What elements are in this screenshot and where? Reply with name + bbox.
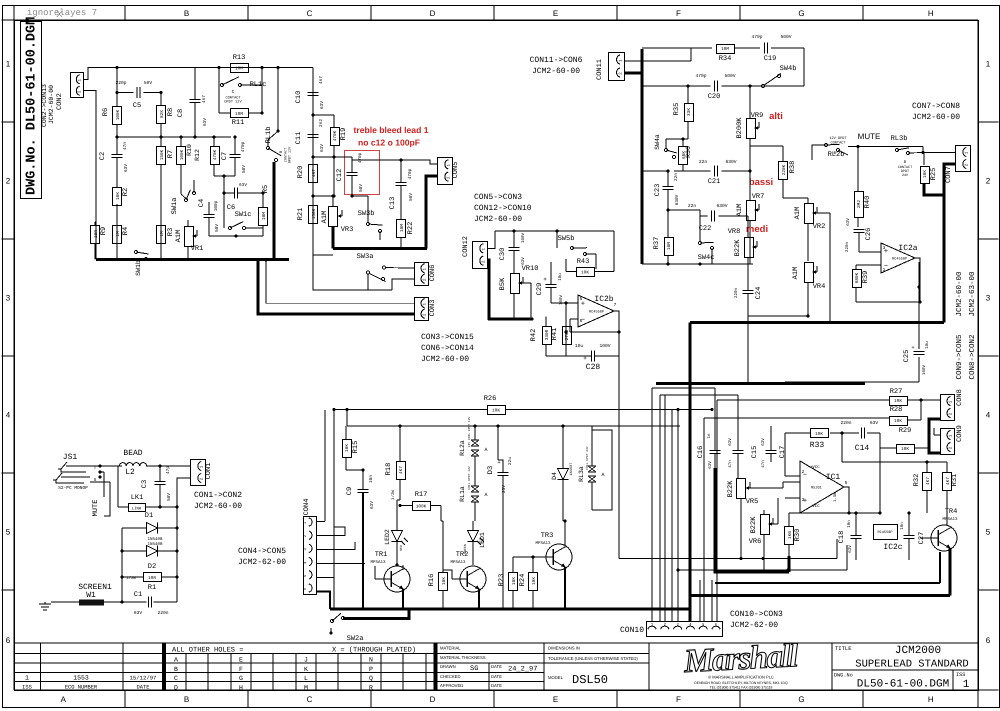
svg-text:63V: 63V [203, 118, 208, 126]
svg-text:R4: R4 [122, 227, 130, 235]
svg-text:2: 2 [986, 177, 991, 186]
svg-text:47p: 47p [166, 466, 171, 474]
wire RL3a loop [592, 430, 612, 510]
resistor R12 470K [211, 147, 220, 165]
svg-text:CON4: CON4 [303, 499, 311, 516]
wire IC1 output [844, 487, 849, 513]
svg-text:A1M: A1M [321, 211, 329, 224]
svg-text:SW1c: SW1c [235, 211, 252, 219]
resistor R30 1K0 [785, 527, 794, 545]
svg-text:JCM2-62-00: JCM2-62-00 [730, 621, 778, 630]
svg-text:10K: 10K [815, 432, 823, 437]
connector CON12 [473, 242, 488, 269]
svg-text:DL50-61-00.DGM: DL50-61-00.DGM [857, 679, 949, 691]
svg-text:10K: 10K [901, 447, 909, 452]
wire CON12 pin1 [487, 231, 495, 248]
wire IC2a output [856, 258, 920, 302]
svg-text:RL1a: RL1a [459, 486, 466, 502]
svg-text:C17: C17 [779, 446, 787, 459]
wire VR5 bottom [740, 498, 742, 559]
svg-text:50V: 50V [167, 493, 172, 501]
wires CON4 pins [316, 521, 325, 523]
svg-text:L2: L2 [125, 468, 135, 477]
svg-text:15/12/97: 15/12/97 [130, 675, 157, 682]
thick rail below tone [656, 382, 865, 385]
svg-text:C: C [232, 89, 235, 95]
svg-text:100V: 100V [559, 294, 564, 305]
bottom rail thick [96, 258, 289, 261]
svg-text:1: 1 [6, 60, 11, 69]
svg-text:C24: C24 [755, 287, 763, 300]
title block thick divider [162, 643, 166, 690]
resistor R22 10M [397, 220, 406, 238]
svg-text:CON1: CON1 [205, 463, 213, 480]
svg-text:RL3a: RL3a [578, 466, 585, 482]
svg-text:SW3b: SW3b [358, 209, 375, 218]
svg-text:4: 4 [986, 411, 991, 420]
capacitor C6 63V [233, 188, 235, 199]
svg-text:R38: R38 [789, 161, 797, 174]
svg-text:Q: Q [369, 675, 373, 682]
svg-text:47n: 47n [728, 460, 733, 468]
wire R27 feed [717, 399, 889, 401]
wire R33 node down to R32 R31 [841, 433, 843, 462]
svg-text:C: C [307, 695, 313, 704]
svg-text:6: 6 [986, 636, 991, 645]
svg-text:220n: 220n [840, 420, 851, 426]
svg-text:VR5: VR5 [746, 498, 759, 506]
connector CON10 [647, 622, 723, 637]
resistor R40 2M2 [855, 192, 864, 218]
svg-text:CON10->CON3: CON10->CON3 [730, 610, 783, 619]
svg-text:A: A [484, 447, 487, 453]
resistor R34 10M [717, 45, 735, 54]
svg-text:1: 1 [883, 268, 886, 273]
diode second 1N5408 [147, 546, 158, 557]
svg-text:H: H [239, 684, 243, 691]
wire bottom left rail [313, 254, 333, 256]
svg-text:VR8: VR8 [728, 228, 741, 236]
wire into CON3 pin1 [266, 260, 414, 303]
svg-text:C7: C7 [221, 152, 229, 160]
thick bus LED row [330, 608, 690, 611]
svg-text:G: G [798, 9, 804, 18]
svg-text:A: A [174, 657, 178, 664]
svg-text:CONTACT: CONTACT [830, 141, 846, 146]
svg-text:C2: C2 [99, 152, 107, 160]
svg-text:1N4007: 1N4007 [569, 463, 574, 476]
resistor R8 82K [157, 106, 166, 124]
svg-text:220n: 220n [157, 610, 168, 616]
svg-text:63V: 63V [320, 144, 325, 152]
svg-text:T: T [94, 466, 97, 471]
svg-text:C25: C25 [903, 350, 911, 363]
svg-text:B200K: B200K [736, 117, 744, 139]
svg-text:C8: C8 [177, 109, 185, 117]
svg-text:10K: 10K [923, 170, 928, 178]
svg-text:TITLE: TITLE [835, 645, 852, 652]
svg-text:A1M: A1M [792, 267, 800, 280]
svg-text:63V: 63V [848, 545, 853, 553]
wire jack to bead [89, 465, 122, 467]
svg-text:R2: R2 [122, 188, 130, 196]
title block table [14, 642, 978, 644]
svg-text:R36: R36 [685, 146, 692, 158]
svg-text:1/2W: 1/2W [391, 490, 396, 500]
svg-text:470p: 470p [358, 152, 363, 163]
svg-text:R30: R30 [794, 529, 802, 542]
wire CON2 pin2 down [83, 91, 96, 259]
svg-text:C12: C12 [336, 169, 344, 182]
resistor R15 10K [343, 440, 352, 458]
svg-text:100V: 100V [599, 343, 610, 349]
svg-text:CON6->CON14: CON6->CON14 [421, 344, 474, 353]
svg-text:APPROVED: APPROVED [440, 683, 463, 688]
svg-text:22n: 22n [688, 203, 697, 209]
svg-text:1: 1 [986, 60, 991, 69]
svg-text:3: 3 [986, 294, 991, 303]
svg-text:MATERIAL THICKNESS: MATERIAL THICKNESS [440, 655, 486, 660]
svg-text:150K: 150K [312, 208, 317, 219]
svg-text:C15: C15 [751, 446, 759, 459]
resistor R42 330R [543, 327, 552, 345]
svg-text:R13: R13 [233, 54, 246, 62]
thick wire into CON3 pin2 [258, 260, 414, 314]
svg-text:7: 7 [614, 303, 617, 308]
svg-text:L: L [304, 675, 308, 682]
wire RL2b contact [812, 145, 826, 160]
svg-text:B22K: B22K [727, 480, 735, 498]
svg-text:R1: R1 [148, 584, 156, 592]
svg-text:63V: 63V [370, 501, 375, 509]
svg-text:10M: 10M [721, 47, 729, 52]
resistor R11 10M [231, 109, 249, 118]
svg-text:220n: 220n [734, 287, 739, 298]
svg-text:DENBIGH ROAD, BLETCHLEY, MILTO: DENBIGH ROAD, BLETCHLEY, MILTON KEYNES, … [694, 681, 788, 685]
wire VR2 wiper to bus [816, 212, 830, 214]
svg-text:TR3: TR3 [541, 532, 554, 540]
svg-text:10K: 10K [345, 444, 350, 452]
svg-text:470p: 470p [751, 34, 762, 40]
svg-text:A: A [484, 492, 487, 498]
svg-text:R28: R28 [890, 406, 903, 414]
svg-text:CON9->CON5: CON9->CON5 [955, 334, 964, 380]
svg-text:63V: 63V [521, 257, 526, 265]
svg-text:330R: 330R [545, 329, 550, 340]
wire C25 column [918, 262, 920, 287]
svg-text:SG: SG [470, 665, 478, 673]
svg-text:10K: 10K [581, 270, 589, 275]
svg-text:C: C [307, 9, 313, 18]
svg-text:treble bleed lead 1: treble bleed lead 1 [354, 125, 429, 135]
resistor R25 10K [921, 167, 930, 184]
svg-text:DIMENSIONS IN: DIMENSIONS IN [548, 646, 580, 651]
svg-text:R25: R25 [930, 168, 938, 181]
svg-text:3: 3 [6, 294, 11, 303]
svg-text:MPSA13: MPSA13 [942, 517, 958, 522]
svg-text:SW3a: SW3a [357, 253, 374, 261]
svg-text:10u: 10u [558, 273, 563, 281]
red highlight box around C12 [345, 151, 380, 195]
svg-text:IC1: IC1 [826, 473, 841, 482]
wire top rail to C10 column [289, 67, 313, 69]
svg-text:IC2c: IC2c [883, 543, 902, 552]
svg-text:C1: C1 [134, 591, 142, 599]
svg-text:R29: R29 [899, 427, 912, 435]
resistor R10 100K [177, 147, 186, 165]
svg-text:RL1b: RL1b [264, 127, 273, 144]
svg-text:C11: C11 [295, 132, 303, 145]
svg-text:M5201: M5201 [811, 486, 822, 491]
diode D1 1N5408 [147, 523, 158, 534]
thick wire CON12 pin2 down [487, 260, 489, 319]
svg-text:R19: R19 [340, 128, 348, 141]
svg-text:100K: 100K [116, 109, 121, 120]
svg-text:R7: R7 [167, 150, 175, 158]
svg-text:B: B [174, 666, 178, 673]
svg-text:medi: medi [746, 224, 768, 235]
wire VR10 wiper [523, 282, 531, 284]
resistor R18 4K7 1/2W [397, 462, 406, 480]
thick wire CON8 pin2 [929, 419, 940, 453]
svg-text:R6: R6 [102, 108, 110, 116]
svg-text:47n: 47n [761, 460, 766, 468]
svg-text:500V: 500V [780, 34, 791, 40]
svg-text:B: B [184, 9, 189, 18]
svg-text:CHECKED: CHECKED [440, 674, 460, 679]
svg-text:CON3->CON15: CON3->CON15 [421, 333, 474, 342]
svg-text:2M2: 2M2 [857, 200, 862, 208]
svg-text:R22: R22 [407, 222, 415, 235]
svg-text:CON6: CON6 [429, 265, 437, 282]
thick wire CON7 pin2 [924, 164, 955, 195]
svg-text:10M: 10M [667, 242, 672, 250]
wire RL1b down thick [273, 162, 276, 260]
svg-text:CON10: CON10 [620, 626, 644, 635]
svg-text:6: 6 [580, 318, 583, 324]
svg-text:RC4558P: RC4558P [892, 257, 907, 262]
svg-text:100K: 100K [180, 149, 185, 160]
resistor R41 270R [563, 327, 572, 345]
svg-text:MPSA13: MPSA13 [450, 560, 466, 565]
svg-text:3: 3 [802, 497, 805, 503]
svg-text:RC4558P: RC4558P [589, 310, 604, 315]
svg-text:50V: 50V [359, 184, 364, 192]
svg-text:50V: 50V [242, 165, 247, 173]
svg-text:63V: 63V [870, 420, 879, 426]
drawing number box DWG.No. DL50-61-00.DGM [21, 22, 42, 199]
svg-text:JCM2-60-00: JCM2-60-00 [48, 85, 55, 124]
svg-text:4n7: 4n7 [202, 95, 207, 103]
svg-text:1: 1 [25, 675, 29, 682]
wire CON2 pin1 to top rail [83, 68, 96, 80]
svg-text:R11: R11 [232, 119, 245, 127]
svg-text:TR2: TR2 [456, 551, 469, 559]
connector CON6 [415, 263, 429, 286]
svg-text:22n: 22n [674, 173, 679, 181]
long bus verticals to CON10 [651, 388, 653, 621]
wire CON11 pin1 [624, 60, 691, 62]
svg-text:1M: 1M [116, 231, 121, 237]
svg-text:D4: D4 [551, 472, 558, 480]
holes table [185, 654, 187, 691]
svg-text:CON8: CON8 [956, 389, 964, 406]
svg-text:MUTE: MUTE [858, 132, 881, 141]
svg-text:S2-PC MONOP: S2-PC MONOP [58, 485, 88, 491]
material rows [437, 653, 649, 655]
svg-text:TEL (01908) 375411 FAX (01908): TEL (01908) 375411 FAX (01908) 375118 [710, 686, 773, 690]
svg-text:CON3: CON3 [429, 300, 437, 317]
resistor R21 150K [309, 206, 318, 224]
wire R28 feed [704, 417, 889, 419]
svg-text:10R: 10R [94, 230, 99, 238]
svg-text:ISS: ISS [22, 685, 32, 691]
svg-text:470K: 470K [333, 130, 338, 141]
svg-text:VR10: VR10 [522, 265, 539, 273]
wire to CON7 pin1 [923, 152, 955, 154]
svg-text:CON12->CON10: CON12->CON10 [474, 204, 532, 213]
wire IC2b output [614, 311, 619, 332]
wire junction row [313, 156, 334, 158]
svg-text:1553: 1553 [73, 675, 89, 682]
svg-text:bassi: bassi [749, 177, 773, 188]
svg-text:C10: C10 [295, 91, 303, 104]
svg-text:G: G [798, 695, 804, 704]
wire VR6 wiper to IC1 [769, 523, 778, 525]
svg-text:+: + [543, 276, 547, 283]
long verticals to CON10 [651, 388, 653, 621]
svg-text:100K: 100K [416, 504, 427, 509]
svg-text:A1M: A1M [736, 204, 744, 217]
svg-text:B5K: B5K [499, 277, 507, 290]
svg-text:JCM2-60-00: JCM2-60-00 [474, 215, 522, 224]
svg-text:D: D [430, 695, 436, 704]
wire FX return rail [678, 569, 847, 571]
wire C3 bottom [159, 485, 161, 507]
svg-text:JS1: JS1 [63, 453, 78, 462]
svg-text:CON1->CON2: CON1->CON2 [194, 491, 242, 500]
svg-text:C28: C28 [586, 363, 601, 372]
resistor R2 10K [113, 188, 122, 206]
svg-text:63V: 63V [728, 438, 733, 446]
svg-text:5: 5 [986, 528, 991, 537]
svg-text:2n2: 2n2 [319, 119, 324, 127]
svg-text:MODEL: MODEL [548, 675, 564, 680]
svg-text:10K: 10K [492, 408, 500, 413]
svg-text:SW1b: SW1b [135, 260, 142, 276]
op-amp IC1 M5201 [800, 461, 844, 513]
svg-text:R20: R20 [297, 166, 305, 179]
svg-text:H: H [928, 9, 934, 18]
thick bus B5K bottom [489, 318, 532, 321]
wire bottom tone rail [642, 263, 753, 265]
switch SW2a with thick drop [343, 609, 409, 619]
thick gnd bus of fx [715, 468, 789, 572]
svg-text:B22K: B22K [734, 239, 742, 257]
svg-text:IC2b: IC2b [594, 295, 613, 304]
svg-text:680K: 680K [855, 272, 860, 283]
svg-text:P: P [369, 666, 373, 673]
svg-text:SUPERLEAD STANDARD: SUPERLEAD STANDARD [855, 659, 968, 671]
resistor R36 68K [679, 147, 688, 165]
svg-text:1.5W: 1.5W [833, 492, 838, 502]
wire feedback rail [789, 512, 880, 514]
svg-text:4K7: 4K7 [312, 169, 317, 177]
resistor R4 1M [113, 226, 122, 244]
svg-text:63V: 63V [124, 164, 129, 172]
svg-text:DATE: DATE [491, 674, 502, 679]
svg-text:JCM2000: JCM2000 [895, 645, 941, 657]
svg-text:DWG.No. DL50-61-00.DGM: DWG.No. DL50-61-00.DGM [25, 17, 40, 195]
connector CON5 [438, 158, 453, 185]
wire CON1 pin2 [177, 478, 190, 507]
connector CON4 [304, 517, 317, 595]
resistor R9 10R [91, 226, 100, 244]
wire left column [116, 68, 118, 108]
svg-text:ISS: ISS [956, 672, 965, 678]
resistor R19 470K [331, 128, 340, 146]
svg-text:C: C [174, 675, 178, 682]
svg-text:SW4a: SW4a [654, 134, 661, 150]
svg-text:DPDT 12V: DPDT 12V [224, 100, 242, 105]
svg-text:ALL OTHER HOLES =: ALL OTHER HOLES = [172, 647, 243, 655]
svg-text:JCM2-60-00: JCM2-60-00 [955, 271, 964, 317]
svg-text:R10: R10 [186, 144, 193, 156]
op-amp IC2c RC4558P [874, 525, 898, 540]
title area [831, 643, 833, 690]
svg-text:E: E [553, 695, 558, 704]
svg-text:12V COIL DPDT 12V: 12V COIL DPDT 12V [468, 417, 471, 448]
svg-text:COIL DPDT 12V: COIL DPDT 12V [468, 466, 471, 490]
svg-text:3: 3 [883, 245, 886, 251]
svg-text:10K: 10K [116, 192, 121, 200]
resistor R7 150K [157, 147, 166, 165]
svg-text:JCM2-62-00: JCM2-62-00 [238, 558, 286, 567]
svg-text:CON11->CON6: CON11->CON6 [530, 56, 583, 65]
svg-text:MPSA13: MPSA13 [535, 541, 551, 546]
svg-text:RED: RED [399, 545, 403, 551]
svg-text:R41: R41 [551, 328, 559, 341]
mid rail [117, 136, 231, 138]
thick wire CON5 pin2 to bus [426, 176, 437, 249]
svg-text:C20: C20 [708, 93, 721, 101]
svg-text:COIL DPDT 24V: COIL DPDT 24V [586, 446, 589, 470]
svg-text:R16: R16 [428, 574, 436, 587]
svg-text:MATERIAL: MATERIAL [440, 646, 461, 651]
svg-text:VR1: VR1 [191, 245, 204, 253]
resistor R31 4K7 [943, 473, 952, 491]
svg-text:10K: 10K [894, 399, 902, 404]
svg-text:LED2: LED2 [384, 529, 391, 545]
svg-text:10M: 10M [235, 112, 243, 117]
svg-text:10n: 10n [369, 475, 374, 483]
resistor R23 10K [509, 573, 518, 591]
svg-text:C29: C29 [536, 283, 544, 296]
svg-text:1: 1 [963, 679, 970, 691]
resistor R35 33K [685, 104, 694, 122]
svg-text:R43: R43 [577, 258, 590, 266]
svg-text:4: 4 [6, 411, 11, 420]
svg-text:LINK: LINK [132, 507, 142, 512]
svg-text:RL2a: RL2a [459, 440, 466, 456]
svg-text:2: 2 [802, 469, 805, 475]
svg-text:470p: 470p [241, 141, 246, 152]
svg-text:6: 6 [6, 636, 11, 645]
svg-text:C22: C22 [699, 225, 712, 233]
svg-text:DWG.No: DWG.No [834, 673, 853, 679]
resistor R39 680K [853, 270, 862, 288]
svg-text:CON9: CON9 [956, 425, 964, 442]
